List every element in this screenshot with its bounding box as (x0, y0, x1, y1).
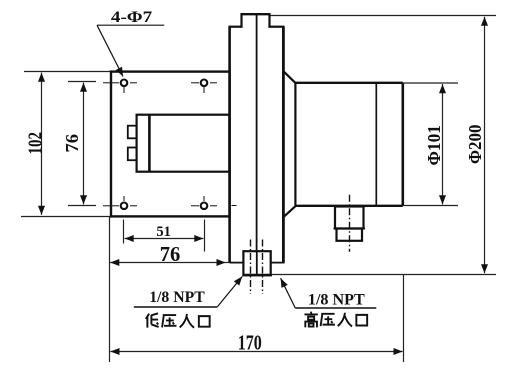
dimension 76 vertical line (83, 83, 85, 205)
flange bottom left segment (230, 262, 244, 264)
extension line top hole row (68, 81, 96, 83)
label high pressure inlet char RU (338, 313, 352, 327)
extension line hole right below (204, 220, 206, 252)
extension line bottom hole row (68, 205, 96, 207)
label 1/8 NPT high underline (295, 307, 376, 309)
hole bottom-left (103, 196, 137, 209)
hole top-right (191, 80, 217, 94)
label low pressure inlet char RU (180, 314, 194, 328)
flange center line (256, 14, 258, 251)
svg-text:Φ200: Φ200 (465, 125, 485, 165)
label high pressure inlet char GAO (304, 312, 317, 328)
cylinder right edge (401, 83, 404, 206)
connector boss divider (334, 228, 366, 230)
cylinder top (295, 82, 402, 84)
connector boss lower (337, 229, 363, 241)
label 1/8 NPT low underline (134, 306, 217, 308)
svg-text:1/8 NPT: 1/8 NPT (149, 289, 205, 306)
svg-text:4-Φ7: 4-Φ7 (111, 9, 153, 26)
svg-text:170: 170 (238, 331, 262, 355)
flange right edge (282, 27, 285, 263)
hole bottom-right (191, 196, 237, 209)
leader high pressure (281, 278, 296, 308)
dimension 76 line (110, 262, 225, 264)
svg-text:1/8 NPT: 1/8 NPT (308, 292, 365, 309)
junction box tab lower (128, 148, 137, 161)
PHI101 extension top (403, 82, 458, 84)
PHI200 extension bottom (272, 274, 496, 276)
svg-text:51: 51 (156, 224, 171, 240)
leader low pressure (217, 276, 242, 307)
extension line left long (109, 216, 111, 362)
junction box divider (148, 115, 151, 172)
label low pressure inlet char YA (162, 315, 176, 327)
flange neck top (241, 13, 271, 15)
PHI101 extension bottom (403, 205, 458, 207)
label 4-PHI7 underline (97, 24, 164, 26)
cylinder bottom (295, 205, 402, 207)
port centerline low pressure (250, 240, 252, 295)
flange left shoulder (229, 26, 243, 28)
extension line hole left below (123, 220, 125, 244)
label 4-PHI7 leader (97, 25, 123, 76)
port boss divider (256, 251, 258, 275)
dimension 102 line (41, 73, 43, 215)
flange left edge (228, 27, 231, 263)
PHI200 extension top (271, 15, 497, 17)
label high pressure inlet char YA (321, 314, 335, 326)
flange neck left side (240, 13, 242, 28)
PHI200 dimension line (484, 17, 486, 274)
mounting plate (111, 72, 230, 217)
port boss bottom heavy (243, 274, 273, 277)
cone bottom slant (284, 205, 296, 216)
svg-text:76: 76 (160, 242, 181, 266)
junction box (137, 115, 230, 172)
flange right shoulder (269, 26, 285, 28)
dimension 51 line (125, 238, 204, 240)
svg-text:Φ101: Φ101 (424, 125, 444, 166)
junction box tab upper (128, 126, 137, 139)
label high pressure inlet char KOU (356, 315, 367, 326)
flange neck right side (268, 13, 270, 28)
dimension 170 line (110, 351, 402, 353)
cylinder end cap line (375, 83, 377, 206)
svg-text:102: 102 (24, 132, 46, 155)
extension line right of cylinder (403, 275, 405, 363)
port centerline high pressure (262, 240, 264, 295)
label low pressure inlet char DI (146, 313, 159, 327)
port boss (243, 251, 270, 275)
extension line plate top (24, 71, 112, 73)
cylinder left edge (294, 83, 296, 206)
cone top slant (284, 72, 296, 84)
PHI101 dimension line (442, 84, 444, 204)
hole top-left (103, 80, 137, 94)
label low pressure inlet char KOU (199, 316, 210, 327)
connector centerline (349, 195, 351, 252)
extension line plate bottom (21, 216, 111, 218)
flange bottom right segment (271, 262, 285, 264)
svg-text:76: 76 (62, 134, 82, 153)
connector boss upper (335, 207, 364, 229)
